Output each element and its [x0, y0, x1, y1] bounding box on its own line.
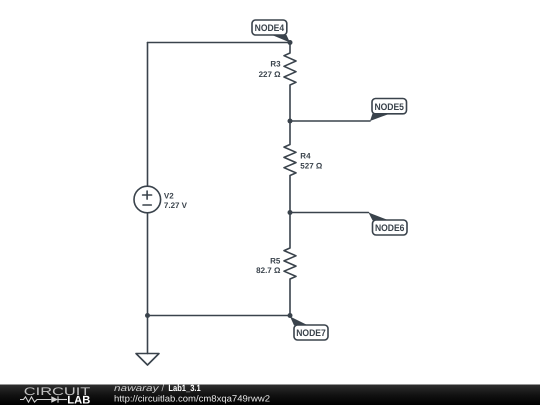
svg-text:7.27 V: 7.27 V	[164, 201, 188, 210]
svg-text:NODE7: NODE7	[296, 328, 326, 339]
svg-text:82.7 Ω: 82.7 Ω	[256, 266, 281, 275]
svg-text:R4: R4	[300, 151, 311, 160]
svg-text:Lab1_3.1: Lab1_3.1	[168, 383, 200, 393]
svg-text:227 Ω: 227 Ω	[259, 70, 282, 79]
svg-text:NODE6: NODE6	[375, 223, 405, 234]
svg-text:NODE5: NODE5	[374, 102, 404, 113]
svg-text:NODE4: NODE4	[255, 23, 285, 34]
svg-text:527 Ω: 527 Ω	[300, 162, 323, 171]
svg-text:R5: R5	[270, 257, 281, 266]
svg-text:http://circuitlab.com/cm8xqa74: http://circuitlab.com/cm8xqa749rww2	[114, 393, 270, 403]
svg-text:LAB: LAB	[67, 394, 90, 405]
svg-text:nawaray: nawaray	[114, 383, 159, 393]
svg-text:R3: R3	[270, 60, 281, 69]
svg-text:V2: V2	[164, 192, 174, 201]
